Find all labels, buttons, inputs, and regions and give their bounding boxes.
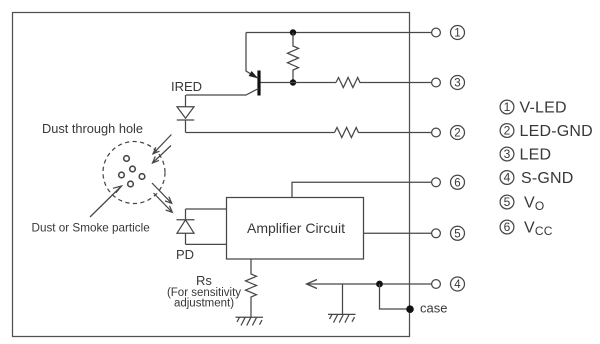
legend circle 4 [500,171,514,185]
resistor (LED bias, vertical) [288,33,299,84]
wire Vo pin 5 [364,232,433,234]
wire internal ground stub [342,284,344,314]
amplifier U1 [227,198,364,260]
terminal 2 [432,128,441,137]
svg-text:Amplifier Circuit: Amplifier Circuit [247,220,345,236]
svg-text:1: 1 [454,28,460,40]
ground (Rs) [236,317,264,325]
node case [406,305,414,313]
wire V-LED top rail [246,32,432,34]
svg-text:LED: LED [520,147,552,164]
terminal 3 [432,78,441,87]
svg-text:VCC: VCC [524,220,553,239]
svg-text:4: 4 [504,171,511,185]
svg-text:adjustment): adjustment) [174,298,234,310]
svg-text:4: 4 [454,279,461,291]
legend circle 6 [500,220,514,234]
dust particles [119,156,145,187]
legend circle 5 [500,195,514,209]
legend circle 1 [500,100,514,114]
node junction S-GND [376,281,383,288]
terminal 1 [432,28,441,37]
svg-text:PD: PD [176,247,194,262]
wire PD anode to amplifier [186,243,227,245]
svg-text:case: case [420,301,447,316]
IRED emission arrow upper [153,135,172,164]
legend circle 2 [500,124,514,138]
legend circle 3 [500,147,514,161]
emission arrow lower toward PD [152,183,172,212]
wire PD cathode to amplifier [186,208,227,210]
pin number 4 [451,277,465,291]
wire LED-GND line [186,132,335,134]
package outline [13,13,410,337]
svg-text:Dust through hole: Dust through hole [42,121,143,136]
resistor (LED-GND pin 2, horizontal) [335,128,433,138]
pin number 6 [451,175,465,189]
svg-text:IRED: IRED [171,79,202,94]
pointer arrow dust or smoke particle [90,186,122,217]
svg-text:3: 3 [504,147,511,161]
pin number 2 [451,126,465,140]
svg-text:1: 1 [504,100,511,114]
pin number 3 [451,76,465,90]
resistor Rs [246,259,257,317]
ground (internal) [328,314,356,322]
svg-text:Rs: Rs [196,273,212,288]
svg-text:VO: VO [524,195,544,214]
svg-text:S-GND: S-GND [521,170,574,187]
wire base to resistor [293,82,336,84]
svg-text:3: 3 [454,78,460,90]
svg-text:2: 2 [454,128,460,140]
transistor Q1 [186,33,293,96]
pin number 5 [451,226,465,240]
svg-text:5: 5 [454,229,460,241]
wire S-GND pin 4 with arrow [307,280,433,289]
terminal 6 [432,178,441,187]
svg-text:LED-GND: LED-GND [520,123,593,140]
svg-text:6: 6 [454,178,460,190]
wire case connection [380,284,411,309]
terminal 4 [432,280,441,289]
resistor (LED pin 3, horizontal) [336,78,432,88]
svg-text:V-LED: V-LED [520,100,567,117]
svg-text:5: 5 [504,195,511,209]
svg-text:2: 2 [504,124,511,138]
IRED LED D1 [177,95,194,133]
wire Vcc pin 6 [292,182,432,197]
terminal 5 [432,229,441,238]
pin number 1 [451,26,465,40]
svg-text:Dust or Smoke particle: Dust or Smoke particle [32,222,150,235]
node junction top rail [290,29,296,35]
photodiode PD [177,209,195,244]
svg-text:6: 6 [504,220,511,234]
dust through hole circle (dashed) [103,142,165,204]
node junction base [290,79,296,85]
